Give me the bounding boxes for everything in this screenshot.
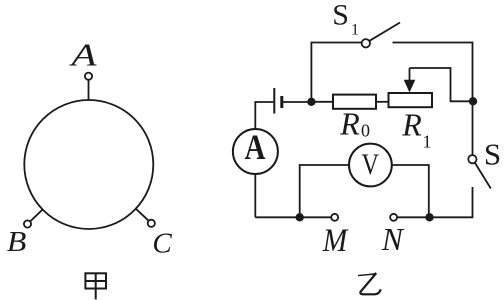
wire: battery row left segment <box>254 101 273 103</box>
node: M-side junction <box>296 213 304 221</box>
svg-text:R: R <box>339 106 360 142</box>
switch S1 blade <box>370 23 401 41</box>
node: right junction <box>469 97 477 105</box>
svg-text:1: 1 <box>351 22 359 39</box>
node: battery/S1/R0 junction <box>307 98 315 106</box>
switch S1 pivot <box>362 39 370 47</box>
rheostat R1 wiper arrow <box>409 68 411 82</box>
svg-text:R: R <box>401 107 422 143</box>
switch S blade <box>475 163 491 189</box>
terminal B stub <box>30 209 43 221</box>
caption 乙 <box>358 273 381 294</box>
svg-text:C: C <box>152 228 172 260</box>
terminal A stub <box>88 80 90 100</box>
terminal C stub <box>136 209 149 221</box>
resistor R0 <box>333 95 376 109</box>
svg-text:A: A <box>245 127 266 167</box>
wire: node to R0 <box>311 101 333 103</box>
terminal A <box>85 73 92 80</box>
voltmeter V <box>349 144 392 187</box>
wire: voltmeter branch left <box>300 165 349 217</box>
wire: below S to bottom-right corner <box>430 187 473 217</box>
wire: left vertical battery to ammeter <box>254 102 256 129</box>
caption 甲 <box>85 273 106 299</box>
svg-text:B: B <box>7 226 27 258</box>
svg-text:V: V <box>362 148 380 181</box>
node: N-side junction <box>425 213 433 221</box>
rheostat R1 body <box>389 93 433 107</box>
terminal N <box>390 214 397 221</box>
wire: right node down to switch S <box>472 101 474 155</box>
svg-text:M: M <box>322 223 349 259</box>
terminal M <box>331 214 338 221</box>
wire: voltmeter branch right <box>392 165 429 217</box>
wire: S1 branch right (top to right node) <box>393 43 473 102</box>
switch S pivot <box>468 155 476 163</box>
wire: junction to terminal N <box>397 216 429 218</box>
battery cell <box>273 88 275 114</box>
wire: S1 branch left (node up and right) <box>311 43 361 102</box>
svg-text:S: S <box>484 137 501 172</box>
wire: R0 to R1 <box>376 101 389 103</box>
svg-text:0: 0 <box>361 121 370 141</box>
component circle (figure 甲) <box>24 100 153 229</box>
svg-text:1: 1 <box>423 131 432 151</box>
wire: battery to node <box>283 101 311 103</box>
ammeter A <box>233 129 278 174</box>
svg-text:N: N <box>381 221 405 257</box>
wire: ammeter to bottom-left corner <box>254 174 256 217</box>
wire: wiper to right node <box>410 68 474 101</box>
terminal B <box>24 220 31 227</box>
wire: bottom left segment to terminal M <box>255 216 331 218</box>
svg-text:A: A <box>69 36 97 72</box>
svg-text:S: S <box>332 0 349 32</box>
terminal C <box>148 220 155 227</box>
